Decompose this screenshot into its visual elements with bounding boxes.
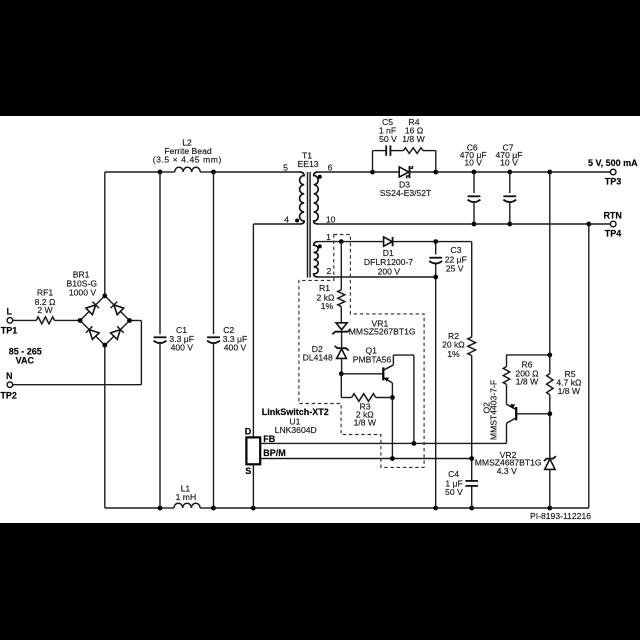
transformer T1 pin 6 label (328, 162, 333, 172)
svg-text:1/8 W: 1/8 W (402, 134, 425, 144)
transformer T1 labels T1 EE13 (297, 151, 318, 170)
wire U1 BP/M pin (260, 458, 471, 460)
label RF1 8.2 ohm 2 W (35, 288, 56, 316)
svg-text:PMBTA56: PMBTA56 (353, 355, 392, 365)
svg-text:TP2: TP2 (0, 391, 17, 401)
label U1 (289, 417, 300, 427)
svg-text:400 V: 400 V (171, 342, 194, 352)
junction C2 top (211, 170, 216, 175)
label 85 - 265 VAC (9, 347, 42, 366)
svg-text:1000 V: 1000 V (69, 287, 97, 297)
label R5 4.7 kohm 1/8 W (556, 369, 582, 396)
svg-text:6: 6 (328, 162, 333, 172)
svg-text:2 W: 2 W (37, 305, 53, 315)
wire bottom rail L1 to C2 bottom (200, 507, 213, 509)
wire Q1 base node down to R3 (341, 374, 351, 398)
svg-text:TP3: TP3 (605, 177, 622, 187)
svg-text:BP/M: BP/M (263, 448, 286, 458)
U1 pin label FB (263, 434, 275, 444)
svg-text:2: 2 (327, 266, 332, 276)
label VR2 MMSZ4687BT1G 4.3 V (475, 450, 542, 476)
svg-text:5 V, 500 mA: 5 V, 500 mA (588, 158, 638, 168)
label D1 DFLR1200-7 200 V (364, 248, 413, 277)
label C1 3.3 uF 400 V (169, 325, 194, 353)
wire 5V rail to TP3 (550, 171, 611, 173)
resistor R1 (line with zigzag) (338, 242, 345, 323)
svg-text:1: 1 (326, 232, 331, 242)
junction C7 top (507, 170, 512, 175)
wire bridge DC- down to bottom rail (105, 345, 160, 508)
wire 5V rail C7 to R6 branch (510, 171, 550, 173)
wire bridge DC+ to top rail (105, 172, 160, 296)
label PI-8193-112216 (530, 511, 591, 521)
junction R2/C4 at BP/M wire (469, 456, 474, 461)
inductor L2 ferrite bead (175, 167, 201, 172)
label Q1 PMBTA56 (353, 346, 392, 365)
svg-text:DFLR1200-7: DFLR1200-7 (364, 257, 413, 267)
svg-text:VAC: VAC (16, 356, 35, 366)
wire RTN rail C7 to RTN riser (510, 223, 589, 225)
capacitor C4 (465, 459, 478, 509)
svg-text:1/8 W: 1/8 W (354, 418, 377, 428)
wire top rail C2 to T1 pin 5 (214, 171, 300, 173)
resistor R4 (403, 148, 423, 154)
resistor RF1 (36, 317, 54, 324)
snubber loop wire (C5/R4 branch) (373, 151, 436, 172)
zener diode D2 DL4148 (335, 346, 349, 374)
junction Q2 base at R5/VR2 node (547, 411, 552, 416)
svg-text:L: L (7, 307, 13, 317)
zener diode VR2 MMSZ4687BT1G (544, 456, 556, 508)
svg-text:10: 10 (326, 215, 336, 225)
svg-text:EE13: EE13 (297, 159, 318, 169)
label L1 1 mH (176, 484, 197, 503)
wire N terminal to bridge AC2 (13, 321, 142, 385)
wire T1 pin 2 to C3 bottom (318, 276, 435, 278)
capacitor C1 (154, 172, 167, 508)
svg-text:(3.5 × 4.45 mm): (3.5 × 4.45 mm) (153, 155, 222, 165)
wire RTN rail C6 to C7 (474, 223, 510, 225)
svg-text:10 V: 10 V (464, 157, 482, 167)
svg-text:4: 4 (284, 215, 289, 225)
label C3 22 uF 25 V (445, 245, 467, 274)
bridge rectifier BR1 diamond wires (80, 296, 129, 345)
svg-text:1 mH: 1 mH (176, 492, 197, 502)
op-amp U1 LinkSwitch-XT2 LNK3604D (IC body) (246, 437, 260, 464)
junction C1 bottom (158, 506, 163, 511)
junction snubber right at 5V rail (433, 170, 438, 175)
svg-text:PI-8193-112216: PI-8193-112216 (530, 511, 591, 521)
label C2 3.3 uF 400 V (223, 325, 248, 353)
transformer T1 bias winding (pins 1-2) (314, 242, 319, 277)
svg-text:50 V: 50 V (379, 134, 397, 144)
junction R6/R5 branch at 5V rail (547, 170, 552, 175)
wire R3 to emitter line (376, 397, 393, 399)
svg-text:LNK3604D: LNK3604D (275, 425, 317, 435)
junction bridge AC1 (78, 318, 83, 323)
wire 5V rail C6 to C7 (474, 171, 510, 173)
junction snubber left at 5V rail (370, 170, 375, 175)
label C7 470 uF 10 V (496, 142, 523, 167)
diode D3 SS24 (373, 166, 436, 179)
junction C3 line at bottom rail (433, 506, 438, 511)
svg-text:1%: 1% (447, 349, 460, 359)
zener diode VR1 MMSZ5267BT1G (332, 323, 350, 348)
U1 pin label D (245, 426, 252, 436)
junction R6 branch at 5V riser (547, 353, 552, 358)
bridge diode BR1c (bottom-left) (86, 326, 99, 339)
svg-text:50 V: 50 V (445, 487, 463, 497)
wire L terminal to RF1 (13, 319, 37, 321)
junction C4 bottom at bottom rail (469, 506, 474, 511)
junction C6 top (472, 170, 477, 175)
svg-text:TP1: TP1 (1, 326, 18, 336)
wire Q1 emitter down to BP/M wire (391, 383, 393, 459)
junction U1 S pin at bottom rail (251, 506, 256, 511)
label R4 16 ohm 1/8 W (402, 117, 425, 144)
capacitor C7 (503, 172, 516, 224)
transformer T1 primary phase dot (295, 219, 299, 223)
junction C3 top (bias+) (433, 239, 438, 244)
junction RTN riser at RTN rail (586, 222, 591, 227)
resistor R5 (547, 374, 553, 395)
wire 5V rail T1 pin 6 to snubber (318, 171, 372, 173)
label BR1 B10S-G 1000 V (67, 270, 98, 298)
junction C2 bottom (211, 506, 216, 511)
svg-text:LinkSwitch-XT2: LinkSwitch-XT2 (262, 407, 329, 417)
junction Q1 collector at FB wire (412, 441, 417, 446)
wire RF1 to bridge AC1 (55, 319, 81, 321)
junction Q1 emitter line at BP/M wire (390, 456, 395, 461)
capacitor C2 (207, 172, 220, 508)
wire RTN rail T1 pin 10 to C6 (318, 223, 474, 225)
label R6 200 ohm 1/8 W (515, 359, 539, 386)
wire 5V riser (5V rail to R5) (549, 172, 551, 374)
transformer T1 pin 1 label (326, 232, 331, 242)
diode D1 DFLR1200-7 (384, 237, 393, 246)
wire RTN riser (right edge vertical) (588, 224, 590, 508)
junction R1 top at pin 1 wire (339, 239, 344, 244)
svg-text:5: 5 (283, 162, 288, 172)
wire D1 to C3 node (393, 241, 436, 243)
junction C3 bottom at pin 2 wire (433, 275, 438, 280)
svg-text:200 V: 200 V (378, 267, 401, 277)
terminal TP2 (N input) (0, 371, 17, 400)
label D2 DL4148 (303, 344, 333, 362)
wire T1 pin 4 to drain riser (253, 223, 299, 225)
wire bottom rail C2 to U1 source (214, 507, 254, 509)
wire T1 pin 1 to D1 (318, 241, 383, 243)
svg-text:TP4: TP4 (605, 229, 622, 239)
transformer T1 secondary phase dot (318, 175, 322, 179)
svg-text:400 V: 400 V (224, 342, 247, 352)
wire Q1 base (341, 373, 382, 375)
junction R3 right (390, 395, 395, 400)
svg-text:10 V: 10 V (500, 157, 518, 167)
svg-text:C4: C4 (448, 469, 459, 479)
svg-text:D: D (245, 426, 252, 436)
wire U1 FB pin (260, 442, 506, 444)
svg-text:1/8 W: 1/8 W (516, 377, 539, 387)
junction C1 top (158, 170, 163, 175)
svg-text:1/8 W: 1/8 W (558, 386, 581, 396)
terminal TP4 (RTN) (603, 210, 622, 238)
label D3 SS24-E3/52T (380, 179, 432, 198)
svg-text:25 V: 25 V (446, 264, 464, 274)
label VR1 MMSZ5267BT1G (349, 318, 416, 336)
junction C7 bottom (507, 222, 512, 227)
label C6 470 uF 10 V (460, 142, 487, 167)
svg-text:SS24-E3/52T: SS24-E3/52T (380, 188, 432, 198)
wire R5 to Q2 base node (549, 395, 551, 459)
wire bottom rail C3 to C4 (436, 507, 472, 509)
wire top rail L2 to C2 (200, 171, 213, 173)
junction bridge AC2 (127, 318, 132, 323)
svg-text:RTN: RTN (603, 210, 622, 220)
wire bottom rail C1 to L1 (160, 507, 174, 509)
label C4 1 uF 50 V (445, 469, 463, 497)
terminal TP3 (5V output) (588, 158, 638, 186)
svg-text:S: S (245, 466, 251, 476)
transformer T1 pin 2 label (327, 266, 332, 276)
wire drain riser to U1 D pin (252, 224, 254, 437)
transformer T1 pin 5 label (283, 162, 288, 172)
wire RTN rail to TP4 (589, 223, 611, 225)
capacitor C3 (429, 242, 442, 508)
junction bridge DC+ (102, 293, 107, 298)
U1 pin label S (245, 466, 251, 476)
transformer T1 secondary winding (pins 6-10) (314, 172, 319, 224)
label LNK3604D (275, 425, 317, 435)
label R3 2 kohm 1/8 W (354, 402, 377, 428)
label R2 20 kohm 1% (442, 331, 465, 359)
dashed feedback-network boundary (299, 235, 424, 468)
transformer T1 primary winding (pins 5-4) (299, 172, 304, 224)
svg-text:4.3 V: 4.3 V (497, 466, 517, 476)
svg-text:N: N (6, 371, 13, 381)
transformer T1 bias phase dot (318, 244, 322, 248)
junction VR2 bottom at bottom rail (547, 506, 552, 511)
wire bottom rail C4 to VR2 (472, 507, 550, 509)
junction bridge DC- (102, 343, 107, 348)
U1 pin label BP/M (263, 448, 286, 458)
bridge diode BR1d (bottom-right) (111, 326, 124, 339)
junction C6 bottom (472, 222, 477, 227)
resistor R3 (352, 394, 376, 402)
svg-text:MMST4403-7-F: MMST4403-7-F (488, 380, 498, 440)
resistor R6 (with leads) (503, 355, 510, 404)
label Q2 MMST4403-7-F (rotated) (482, 380, 499, 440)
wire Q1 collector to FB junction (393, 355, 414, 443)
label C5 1 nF 50 V (379, 117, 397, 144)
terminal TP1 (L input) (1, 307, 18, 336)
resistor R2 (vertical line with zigzag) (468, 242, 476, 459)
svg-text:DL4148: DL4148 (303, 352, 333, 362)
wire Q2 collector to FB wire (506, 423, 508, 443)
wire bottom rail VR2 to RTN riser (550, 507, 589, 509)
transistor Q2 MMST4403-7-F (507, 404, 550, 423)
svg-text:MMSZ5267BT1G: MMSZ5267BT1G (349, 327, 416, 337)
wire 5V rail snubber to C6 (436, 171, 474, 173)
inductor L1 (174, 503, 200, 508)
wire U1 S pin to bottom rail (252, 464, 254, 508)
transistor Q1 PMBTA56 (383, 365, 393, 383)
capacitor C6 (468, 172, 481, 224)
transformer T1 pin 4 label (284, 215, 289, 225)
bridge diode BR1a (left-top) (86, 302, 99, 315)
wire bias+ to R2 line (436, 241, 472, 243)
bridge diode BR1b (right-top) (111, 302, 124, 315)
capacitor C5 (386, 145, 390, 155)
transformer T1 pin 10 label (326, 215, 336, 225)
transformer T1 core (308, 172, 311, 278)
wire bottom rail U1 to C3 line (253, 507, 435, 509)
svg-text:20 kΩ: 20 kΩ (442, 339, 465, 349)
wire R6 branch from 5V riser (507, 354, 550, 356)
wire top rail C1 to L2 (160, 171, 175, 173)
svg-text:1%: 1% (321, 301, 334, 311)
label R1 2 kohm 1% (317, 283, 335, 311)
junction Q1 base node (339, 371, 344, 376)
label LinkSwitch-XT2 (262, 407, 329, 417)
svg-text:FB: FB (263, 434, 275, 444)
label L2 Ferrite Bead (3.5 x 4.45 mm) (153, 137, 222, 164)
